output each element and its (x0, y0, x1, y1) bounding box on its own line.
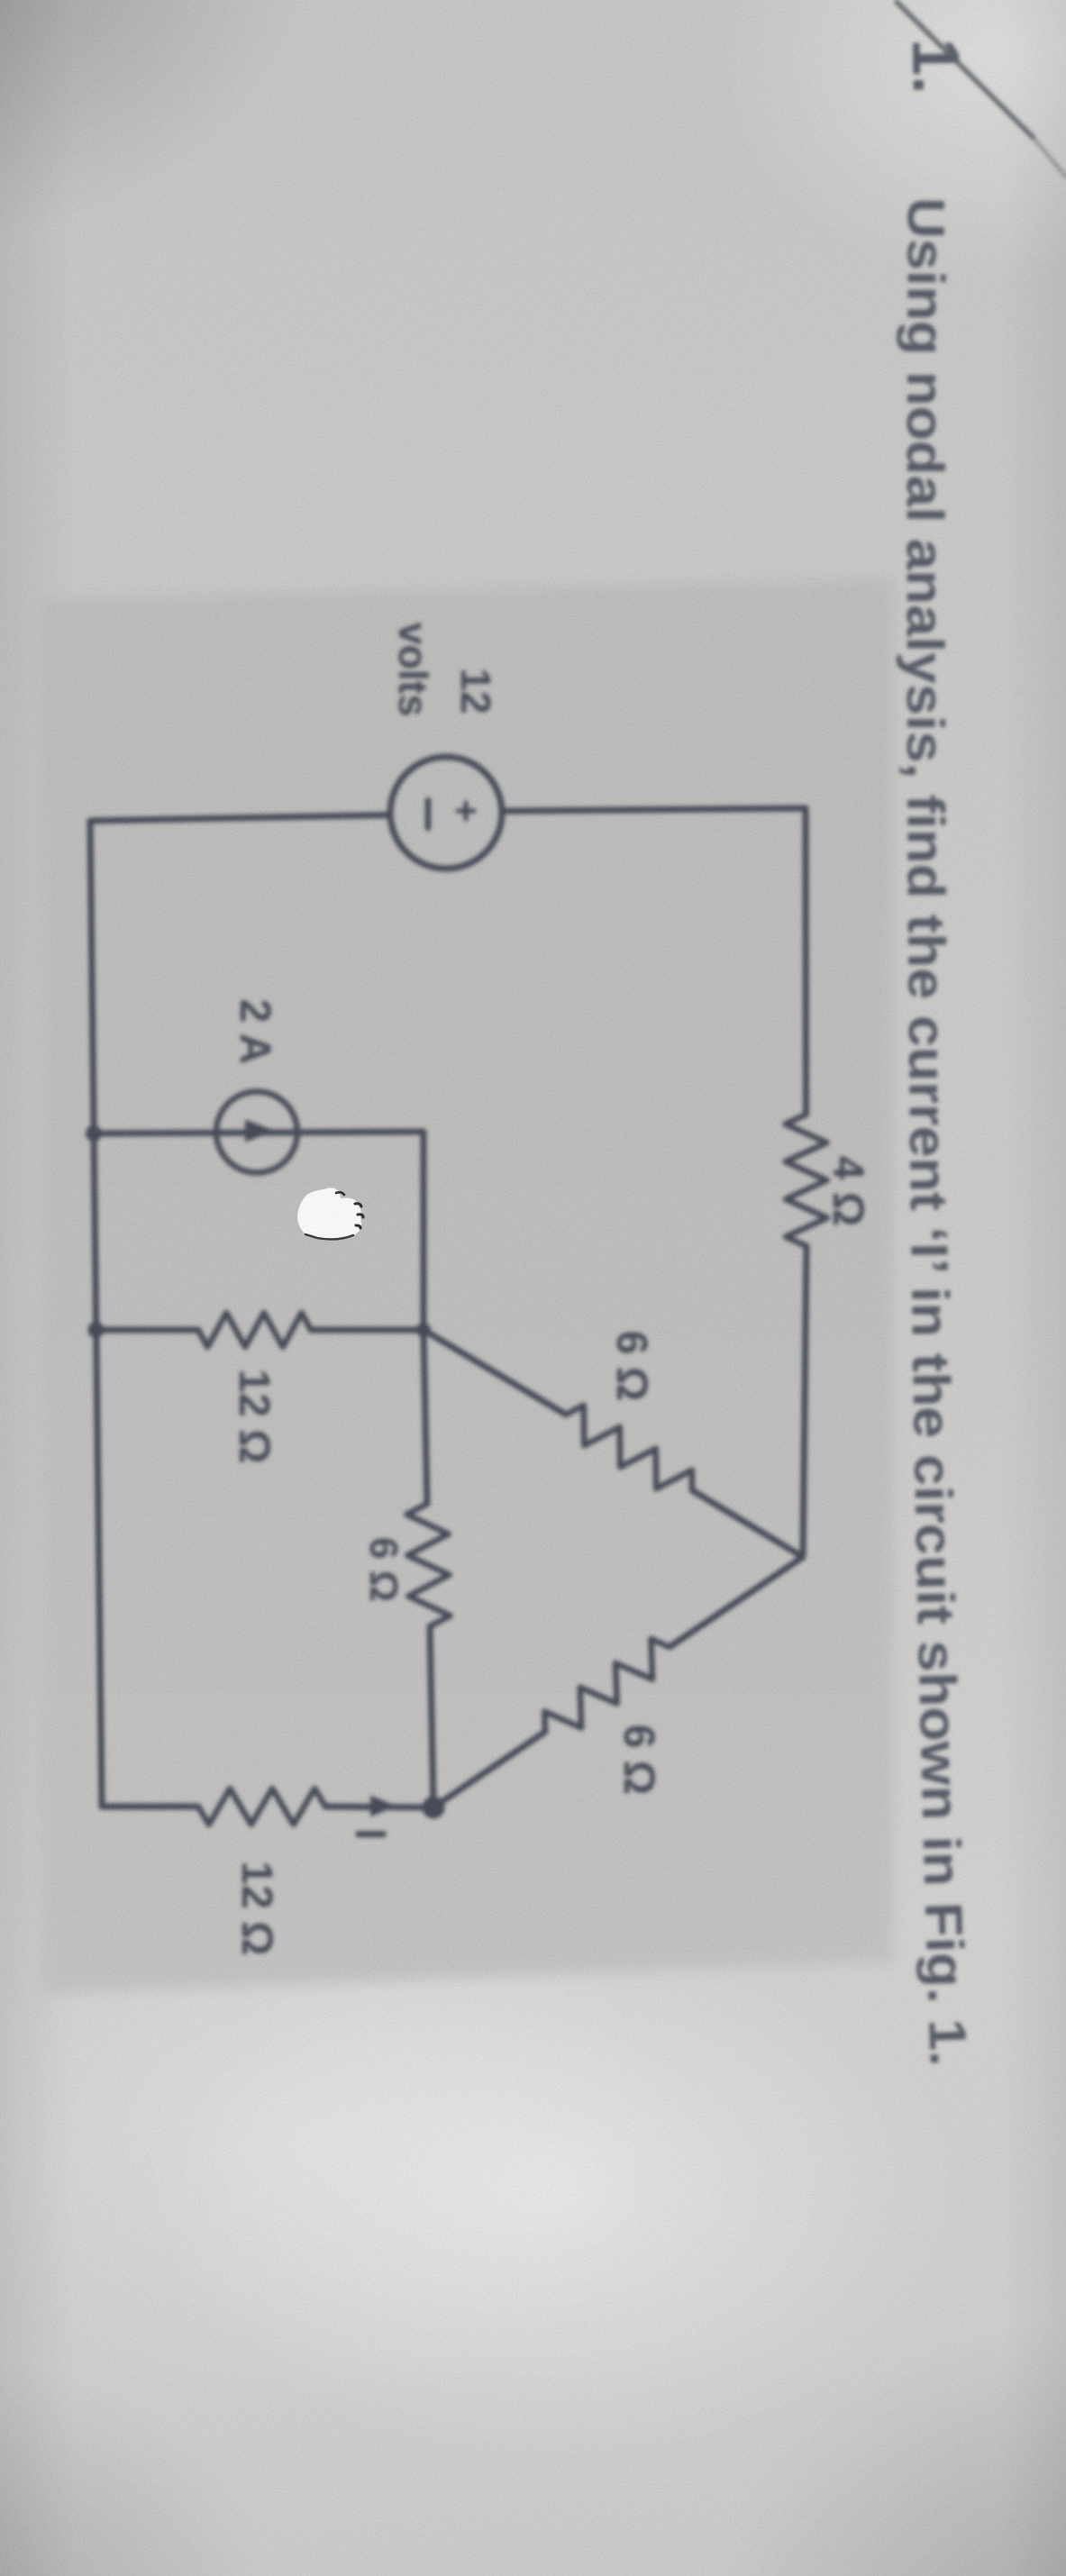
wire: 6 ohm branch left (424, 1330, 427, 1504)
node: right junction (423, 1797, 445, 1819)
hand cursor overlay (297, 1188, 363, 1240)
label 12 volts (390, 622, 499, 716)
node: 12ohm branch / bottom rail (88, 1322, 105, 1338)
wire: diagonal A upper (692, 1490, 803, 1557)
voltage source V1 12 volts (390, 757, 502, 869)
figure gray background (41, 579, 893, 1994)
current arrow I (370, 1796, 396, 1817)
wire: left rail lower (90, 815, 390, 822)
resistor R5 6 ohm (horizontal) (406, 1504, 450, 1626)
resistor R3 6 ohm (lower diagonal) (544, 1639, 670, 1732)
node: center (416, 1323, 431, 1337)
wire: right branch upper (325, 1807, 433, 1807)
pen tick mark (897, 2, 1033, 137)
wire: 2A branch (94, 1132, 424, 1330)
wire: diagonal B upper (670, 1557, 803, 1647)
resistor R1 4 ohm (786, 1115, 827, 1246)
wire: 6 ohm branch right (430, 1626, 433, 1807)
resistor R2 6 ohm (upper diagonal) (566, 1406, 692, 1490)
resistor R4 12 ohm (middle) (198, 1313, 311, 1347)
resistor R6 12 ohm (right) (198, 1789, 325, 1825)
wire: top rail left (803, 808, 810, 1115)
wire: middle branch upper (311, 1327, 424, 1334)
wire: left rail upper (502, 808, 806, 811)
wire: right branch lower (102, 1804, 198, 1810)
wire: diagonal B lower (433, 1732, 545, 1807)
title text (896, 38, 978, 2067)
current source I1 2 A (216, 1092, 297, 1173)
wire: diagonal A lower (424, 1330, 566, 1415)
node: 2A branch / bottom rail (86, 1125, 102, 1142)
wire: middle branch lower (96, 1327, 198, 1334)
wire: bottom rail (90, 821, 102, 1807)
wire: top rail right (803, 1246, 806, 1557)
